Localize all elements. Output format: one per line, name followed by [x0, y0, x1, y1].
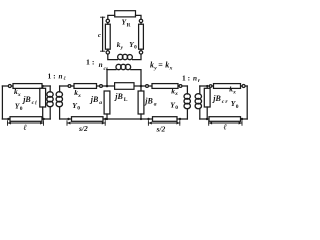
svg-text:0: 0 [77, 105, 80, 111]
svg-text:a: a [154, 102, 157, 108]
svg-text:n: n [193, 74, 197, 82]
wire middle bottom rail [60, 118, 188, 120]
svg-text:n: n [59, 72, 63, 80]
wire right loop top rail [200, 85, 247, 87]
node top-left port circle [106, 19, 109, 22]
svg-text:1 :: 1 : [86, 57, 94, 66]
transformer T1 upper winding lead left [108, 54, 118, 60]
node dot [206, 118, 208, 120]
svg-text:x: x [77, 93, 81, 99]
svg-text:=: = [158, 60, 163, 69]
wire jBa right top lead [140, 86, 142, 91]
wire right loop bottom rail [200, 118, 247, 120]
svg-text:s/2: s/2 [156, 124, 166, 133]
node inner port circle right loop [209, 85, 212, 88]
wire jBcl shunt top lead [42, 86, 44, 88]
dimension line c [101, 17, 105, 51]
resistor middle-right bottom series box [153, 117, 178, 122]
wire YR left lead [108, 15, 115, 19]
node dot [67, 118, 69, 120]
node junction dot right of left loop [42, 118, 44, 120]
transformer T3 secondary lead top [199, 86, 201, 94]
svg-text:n: n [99, 61, 103, 69]
svg-text:x: x [17, 92, 21, 98]
transformer T2 primary coil [47, 92, 53, 107]
svg-text:x: x [169, 65, 173, 71]
svg-text:1 :: 1 : [48, 71, 56, 80]
capacitor jBa right shunt box [138, 91, 144, 114]
svg-text:jB: jB [211, 94, 221, 103]
resistor middle-left top series box [74, 84, 97, 89]
svg-text:x: x [232, 90, 236, 96]
wire left loop left edge [1, 86, 3, 119]
transformer T1 lower winding lead right [131, 70, 141, 86]
node junction dot left [7, 118, 9, 120]
node port circle after T2 [68, 85, 71, 88]
node dot shunt-left at rail [106, 118, 108, 120]
svg-text:cs: cs [104, 66, 109, 72]
transformer T1 lower winding lead left [107, 70, 116, 86]
svg-text:x: x [174, 91, 178, 97]
svg-text:jB: jB [21, 95, 31, 104]
wire jBa left bottom lead [106, 114, 108, 119]
node dot shunt-right at rail [140, 118, 142, 120]
inductor jBL (horizontal box, center) [115, 83, 134, 90]
node dot [179, 118, 181, 120]
node dot jBcl junction [42, 85, 44, 87]
transformer T3 secondary coil [195, 94, 201, 109]
capacitor jBcr (vertical box) [204, 88, 210, 107]
node port circle before center [100, 85, 103, 88]
node port circle before T3 [179, 85, 182, 88]
wire jBcr shunt top lead [206, 86, 208, 88]
transformer T3 primary coil [184, 94, 190, 109]
node bottom-right port circle of top unit [139, 51, 142, 54]
dimension arrow l left [8, 121, 44, 126]
svg-text:s/2: s/2 [78, 124, 88, 133]
dimension arrow s/2 left [67, 121, 105, 126]
wire Y0 box top connector [140, 23, 142, 25]
wire jBcr shunt bottom lead [206, 107, 208, 119]
wire right loop right edge [246, 86, 248, 119]
wire Y0 box bottom connector [140, 49, 142, 51]
node junction dot center-right [140, 85, 143, 88]
transformer T1 lower winding coil [116, 64, 131, 69]
transformer T2 secondary lead bottom [59, 107, 61, 119]
resistor right loop top series box [214, 84, 241, 89]
transformer T1 upper winding lead right [133, 54, 141, 60]
svg-text:c: c [98, 32, 101, 39]
resistor right loop bottom series box [209, 117, 241, 122]
node dot [241, 118, 243, 120]
wire middle top rail [60, 85, 188, 87]
svg-text:jB: jB [113, 92, 123, 101]
node bottom-left port circle of top unit [106, 51, 109, 54]
svg-text:jB: jB [143, 97, 153, 106]
resistor middle-left bottom series box [72, 117, 104, 122]
dimension arrow s/2 right [148, 121, 179, 126]
resistor YR (horizontal box, top) [115, 11, 136, 17]
wire YR right lead [136, 15, 142, 19]
resistor middle-right top series box [152, 84, 178, 89]
node dot jBcr junction [206, 85, 208, 87]
transformer T1 upper winding coil [118, 54, 133, 59]
transformer T2 primary lead bottom [49, 107, 51, 119]
svg-text:jB: jB [89, 95, 99, 104]
resistor Y0 (vertical box, top unit) [139, 24, 144, 49]
transformer T3 secondary lead bottom [199, 109, 201, 119]
node port circle right of center [146, 85, 149, 88]
wire left loop top rail [2, 85, 50, 87]
capacitor jBa left shunt box [104, 91, 110, 114]
wire jBa right bottom lead [140, 114, 142, 119]
transformer T2 primary lead top [49, 86, 51, 92]
wire jBcl shunt bottom lead [42, 107, 44, 119]
node top-right port circle [139, 19, 142, 22]
svg-text:0: 0 [236, 104, 239, 110]
svg-text:0: 0 [20, 106, 23, 112]
transformer T2 secondary lead top [59, 86, 61, 92]
node right port circle [242, 85, 245, 88]
resistor kx Y0 line section (left loop, top series box) [13, 84, 42, 89]
svg-text:0: 0 [175, 105, 178, 111]
capacitor jBcl (vertical box) [40, 88, 46, 107]
svg-text:R: R [127, 22, 131, 28]
svg-text:0: 0 [134, 45, 137, 51]
dimension arrow l right [209, 121, 242, 126]
wire ky box bottom connector [107, 49, 109, 51]
node junction dot center-left [106, 85, 109, 88]
svg-text:y: y [153, 65, 157, 71]
svg-text:1 :: 1 : [182, 73, 190, 82]
node left port circle [8, 85, 11, 88]
wire ky box top connector [107, 23, 109, 25]
svg-text:ℓ: ℓ [224, 123, 228, 132]
transformer T3 primary lead bottom [186, 109, 188, 119]
node dot [104, 118, 106, 120]
wire left loop bottom rail [2, 118, 50, 120]
transformer T3 primary lead top [186, 86, 188, 94]
svg-text:ℓ: ℓ [24, 123, 28, 132]
transformer T2 secondary coil [56, 92, 62, 107]
svg-text:L: L [124, 97, 128, 103]
node dot [147, 118, 149, 120]
resistor ky (vertical box) [105, 24, 110, 49]
svg-text:a: a [99, 100, 102, 106]
resistor left loop bottom series box [10, 117, 42, 122]
